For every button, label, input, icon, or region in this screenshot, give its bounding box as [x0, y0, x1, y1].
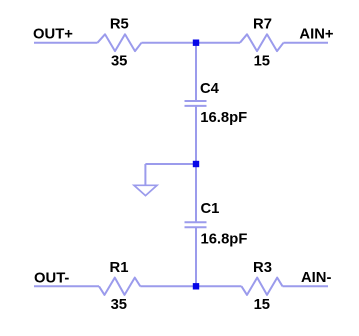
wire [195, 106, 197, 164]
capacitor C4 [185, 101, 207, 106]
svg-text:C1: C1 [201, 201, 220, 217]
resistor R1 [99, 278, 140, 295]
label R7 [253, 17, 272, 33]
resistor R7 [240, 34, 284, 51]
svg-text:OUT+: OUT+ [33, 26, 73, 42]
value 16.8pF [201, 231, 248, 247]
junction node middle [193, 161, 199, 167]
value 16.8pF [200, 110, 247, 126]
junction node top [193, 40, 199, 46]
svg-text:16.8pF: 16.8pF [201, 231, 248, 247]
label R3 [253, 260, 272, 276]
wire [284, 42, 329, 44]
junction node bottom [193, 283, 199, 289]
wire [283, 285, 329, 287]
svg-text:15: 15 [254, 297, 270, 313]
resistor R5 [98, 34, 142, 51]
label R5 [110, 17, 129, 33]
value 35 [111, 54, 127, 70]
wire [195, 43, 197, 101]
svg-text:AIN+: AIN+ [299, 26, 333, 42]
ground [134, 185, 157, 195]
svg-text:35: 35 [111, 54, 127, 70]
svg-text:R1: R1 [110, 260, 129, 276]
wire [34, 285, 99, 287]
wire [195, 227, 197, 286]
wire [195, 164, 197, 222]
capacitor C1 [185, 222, 207, 227]
value 35 [111, 297, 127, 313]
wire [144, 164, 146, 185]
value 15 [254, 54, 270, 70]
label R1 [110, 260, 129, 276]
svg-text:R3: R3 [253, 260, 272, 276]
label C4 [200, 81, 220, 97]
port AIN+ [299, 26, 333, 42]
label C1 [201, 201, 220, 217]
svg-text:35: 35 [111, 297, 127, 313]
port OUT+ [33, 26, 73, 42]
svg-text:16.8pF: 16.8pF [200, 110, 247, 126]
resistor R3 [242, 278, 283, 295]
wire [142, 42, 241, 44]
port AIN- [301, 270, 331, 286]
svg-text:C4: C4 [200, 81, 220, 97]
svg-text:R5: R5 [110, 17, 129, 33]
svg-text:OUT-: OUT- [34, 270, 69, 286]
svg-text:15: 15 [254, 54, 270, 70]
wire [140, 285, 241, 287]
port OUT- [34, 270, 69, 286]
wire [34, 42, 98, 44]
wire [145, 163, 196, 165]
value 15 [254, 297, 270, 313]
svg-text:AIN-: AIN- [301, 270, 331, 286]
svg-text:R7: R7 [253, 17, 272, 33]
